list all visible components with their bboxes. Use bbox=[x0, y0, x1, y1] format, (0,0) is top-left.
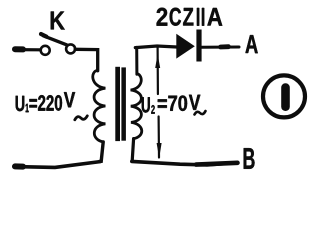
wire primary bottom lead bbox=[100, 142, 104, 162]
wire secondary top to diode bbox=[135, 46, 177, 48]
diode D1 2CZ11A bbox=[176, 30, 201, 62]
wire switch to transformer bbox=[75, 49, 98, 71]
wire diode to A bbox=[202, 45, 239, 49]
transformer T1 secondary winding bbox=[131, 74, 142, 139]
voltage arrow U2 lower segment bbox=[157, 117, 162, 159]
label U1=220V with AC tilde bbox=[16, 92, 88, 120]
wire bottom-right to B bbox=[132, 161, 238, 165]
transformer T1 primary winding bbox=[93, 70, 106, 141]
wire bottom-left bbox=[14, 162, 100, 168]
label U2=70V with AC tilde bbox=[142, 95, 206, 115]
terminal B bbox=[244, 148, 255, 169]
wire top-left input bbox=[14, 48, 40, 52]
wire secondary top lead bbox=[135, 47, 138, 74]
voltage arrow U2 upper segment bbox=[155, 47, 160, 95]
figure number 1 (circled) bbox=[263, 75, 305, 117]
transformer core bbox=[115, 67, 126, 141]
label K bbox=[51, 12, 65, 30]
label 2CZ11A bbox=[157, 8, 223, 26]
switch K bbox=[41, 34, 75, 55]
wire secondary bottom lead bbox=[132, 139, 133, 161]
terminal A bbox=[245, 35, 257, 53]
